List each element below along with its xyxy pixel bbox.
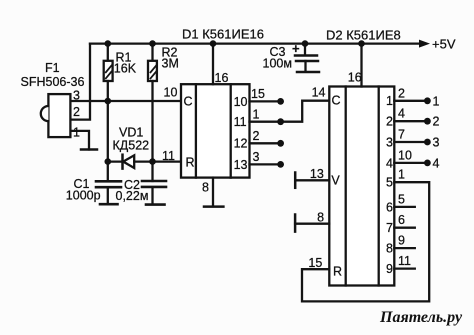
svg-text:КД522: КД522: [113, 139, 150, 153]
svg-text:D2 К561ИЕ8: D2 К561ИЕ8: [326, 28, 401, 43]
svg-text:+5V: +5V: [432, 37, 456, 52]
svg-text:3: 3: [386, 135, 393, 149]
svg-text:9: 9: [398, 234, 405, 248]
svg-text:11: 11: [398, 254, 411, 268]
svg-text:0,22м: 0,22м: [116, 189, 149, 203]
svg-text:1: 1: [253, 107, 260, 121]
svg-text:C: C: [184, 95, 193, 109]
svg-text:V: V: [331, 174, 340, 188]
svg-text:14: 14: [312, 86, 326, 100]
svg-text:1: 1: [73, 126, 80, 140]
svg-text:11: 11: [234, 115, 247, 129]
svg-text:3: 3: [253, 150, 260, 164]
svg-text:15: 15: [308, 256, 322, 270]
svg-text:11: 11: [162, 149, 175, 163]
svg-text:4: 4: [398, 107, 405, 121]
svg-text:1: 1: [433, 94, 440, 108]
svg-text:15: 15: [251, 87, 265, 101]
svg-text:16: 16: [348, 71, 362, 85]
svg-text:5: 5: [386, 176, 393, 190]
svg-text:2: 2: [253, 129, 260, 143]
svg-text:16: 16: [215, 71, 229, 85]
svg-text:VD1: VD1: [119, 126, 143, 140]
svg-text:4: 4: [386, 156, 393, 170]
svg-text:C: C: [332, 94, 341, 108]
svg-text:SFH506-36: SFH506-36: [21, 75, 85, 89]
svg-text:2: 2: [398, 86, 405, 100]
svg-text:3: 3: [73, 89, 80, 103]
svg-text:F1: F1: [45, 61, 60, 75]
svg-text:13: 13: [310, 167, 324, 181]
svg-text:7: 7: [398, 128, 405, 142]
svg-text:10: 10: [234, 95, 248, 109]
svg-text:8: 8: [202, 181, 209, 195]
svg-text:6: 6: [398, 213, 405, 227]
svg-text:13: 13: [234, 158, 248, 172]
svg-text:16K: 16K: [114, 62, 137, 76]
svg-text:Паятель.ру: Паятель.ру: [379, 309, 463, 326]
svg-text:2: 2: [386, 115, 393, 129]
svg-text:100м: 100м: [263, 57, 292, 71]
svg-text:R: R: [333, 264, 342, 278]
svg-text:D1 К561ИЕ16: D1 К561ИЕ16: [182, 27, 264, 42]
svg-text:5: 5: [398, 192, 405, 206]
svg-text:9: 9: [386, 262, 393, 276]
svg-text:6: 6: [386, 200, 393, 214]
svg-text:8: 8: [317, 211, 324, 225]
svg-text:2: 2: [73, 105, 80, 119]
svg-text:12: 12: [234, 137, 248, 151]
svg-text:1000p: 1000p: [66, 189, 101, 203]
svg-text:8: 8: [386, 242, 393, 256]
svg-text:3M: 3M: [162, 57, 179, 71]
svg-text:7: 7: [386, 221, 393, 235]
svg-text:10: 10: [398, 148, 412, 162]
svg-text:3: 3: [433, 136, 440, 150]
svg-text:1: 1: [398, 168, 405, 182]
svg-text:+: +: [292, 41, 300, 56]
svg-text:4: 4: [433, 156, 440, 170]
svg-text:10: 10: [164, 86, 178, 100]
svg-text:2: 2: [433, 115, 440, 129]
svg-text:R: R: [186, 156, 195, 170]
svg-text:1: 1: [386, 94, 393, 108]
